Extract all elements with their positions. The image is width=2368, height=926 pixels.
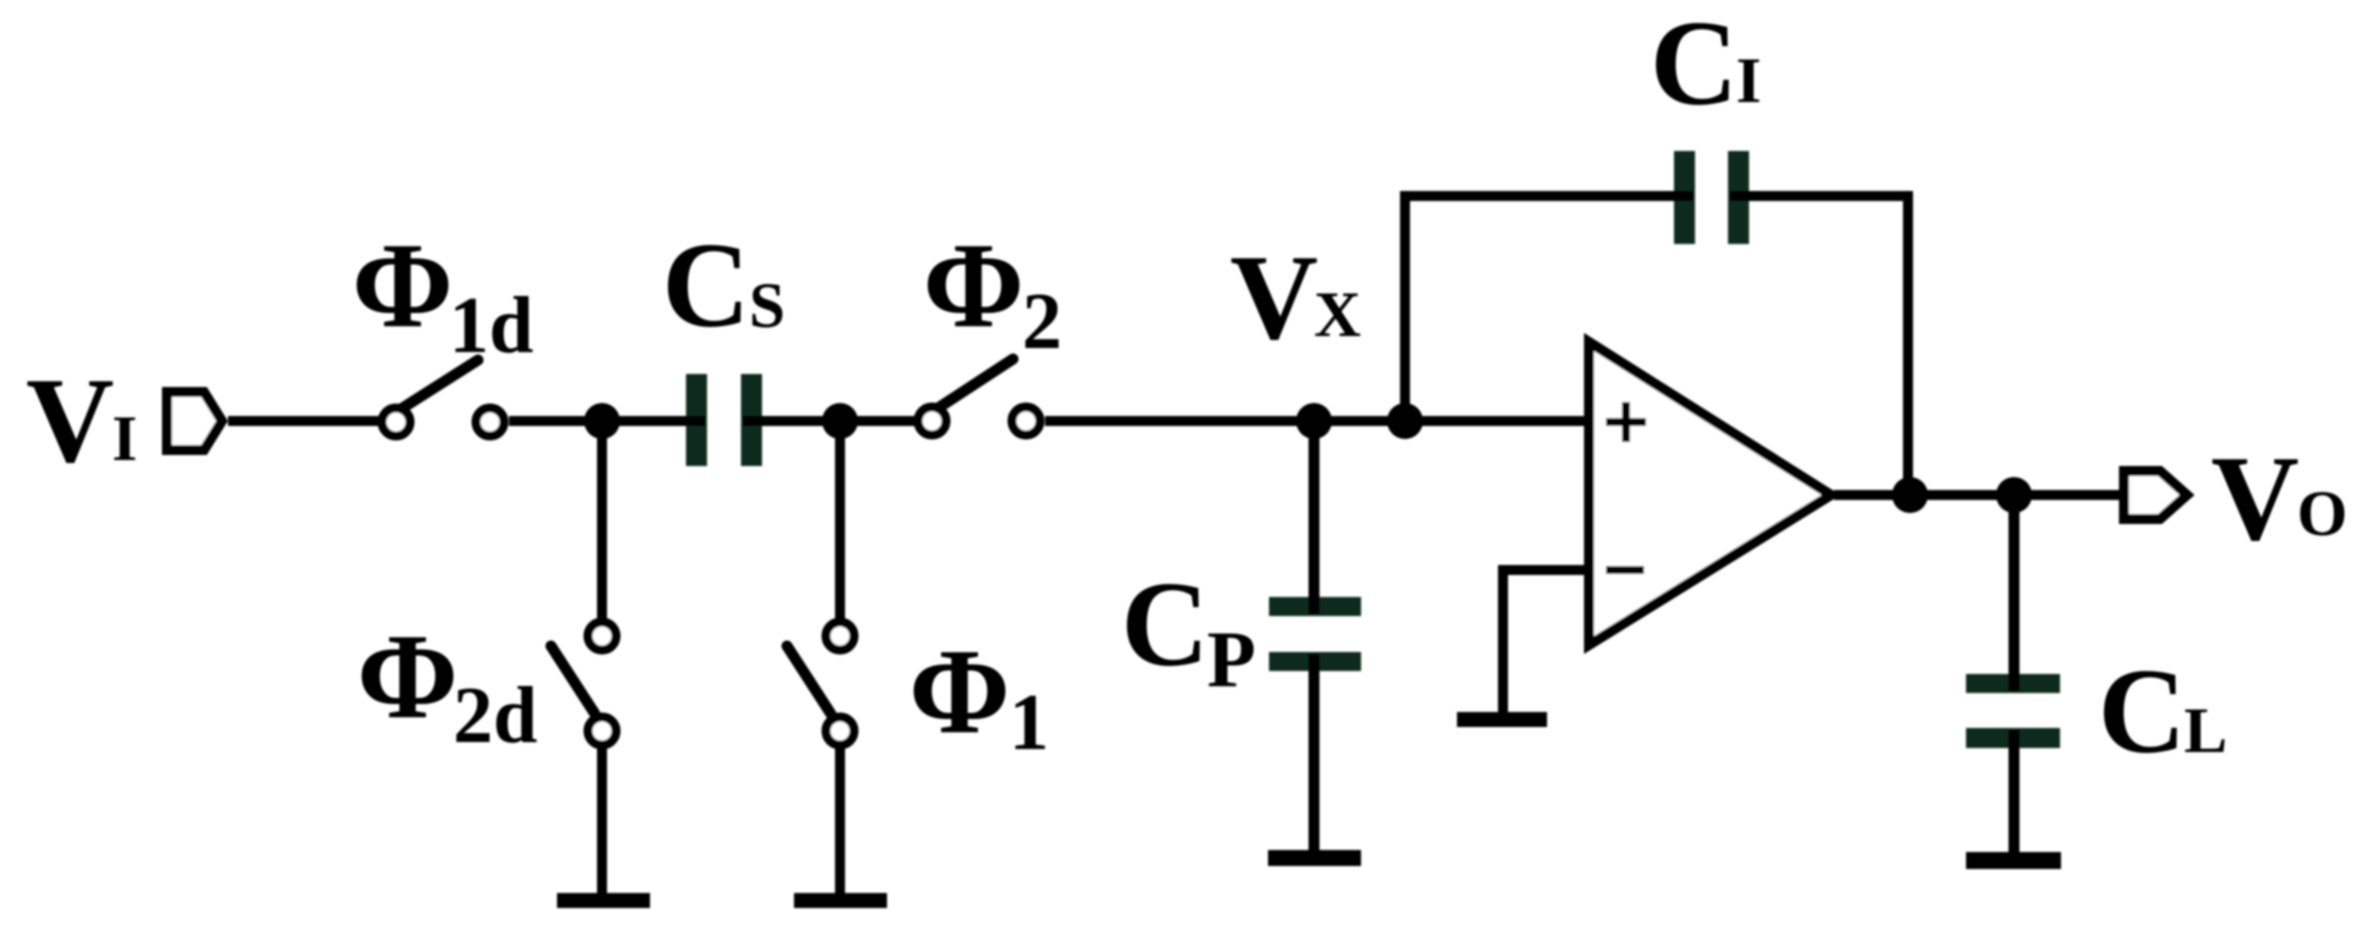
node output 1 [1892, 477, 1928, 513]
svg-text:2: 2 [1022, 278, 1062, 366]
capacitor CL [1966, 674, 2060, 748]
svg-text:C: C [2098, 644, 2186, 779]
capacitor CP [1269, 597, 1361, 671]
node A [584, 403, 620, 439]
svg-text:Φ: Φ [909, 624, 1010, 759]
svg-text:V: V [2211, 431, 2299, 566]
wire node A down to switch phi2d [597, 421, 607, 619]
svg-text:Φ: Φ [352, 218, 453, 353]
svg-text:I: I [1736, 45, 1761, 117]
wire CL to ground [2009, 730, 2020, 854]
op-amp U1 [1589, 342, 1831, 645]
svg-text:Φ: Φ [357, 609, 458, 744]
svg-text:V: V [26, 353, 114, 488]
label CI [1650, 0, 1761, 131]
svg-text:C: C [1650, 0, 1738, 131]
wire phi1 to ground [835, 747, 845, 895]
switch PHI2 [918, 359, 1040, 435]
ground (CP) [1268, 850, 1361, 866]
svg-text:C: C [1121, 557, 1209, 692]
svg-text:C: C [662, 218, 750, 353]
wire CS to node B [743, 416, 919, 426]
wire op-amp minus input to ground [1503, 570, 1589, 714]
svg-text:O: O [2297, 478, 2348, 550]
svg-text:V: V [1230, 230, 1318, 365]
label CS [662, 218, 785, 353]
wire op-amp output to port VO [1834, 490, 2121, 500]
feedback wire up from VX [1405, 196, 1693, 426]
label PHI1 [909, 624, 1049, 767]
node VX1 [1296, 403, 1332, 439]
wire phi2 to op-amp plus input [1045, 416, 1589, 426]
op-amp plus sign [1606, 402, 1646, 442]
label VX [1230, 230, 1361, 365]
wire CP to ground [1309, 654, 1320, 852]
label PHI2d [357, 609, 538, 760]
switch PHI1d [382, 360, 504, 436]
ground (op-amp minus) [1457, 712, 1547, 727]
label VI [26, 353, 137, 488]
port VO [2124, 471, 2187, 519]
feedback wire from CI down to output [1730, 196, 1908, 495]
wire VI to switch phi1d [228, 416, 383, 426]
ground (phi1) [794, 893, 887, 908]
svg-text:L: L [2184, 695, 2227, 767]
label CP [1121, 557, 1256, 704]
svg-text:S: S [749, 270, 785, 342]
switch PHI1 [787, 622, 854, 745]
svg-text:1: 1 [1009, 679, 1049, 767]
node VX2 [1387, 403, 1423, 439]
label PHI1d [352, 218, 534, 370]
svg-text:P: P [1207, 616, 1256, 704]
node output 2 [1996, 477, 2032, 513]
port VI [167, 392, 222, 450]
switch PHI2d [551, 622, 616, 745]
label VO [2211, 431, 2348, 566]
svg-text:I: I [112, 403, 137, 475]
wire node B down to switch phi1 [835, 421, 845, 619]
wire VX down to CP [1309, 421, 1320, 614]
ground (CL) [1966, 852, 2061, 869]
wire phi2d to ground [597, 747, 607, 895]
capacitor CS [686, 374, 762, 466]
svg-text:1d: 1d [449, 282, 534, 370]
wire switch to node A and on to CS [509, 416, 705, 426]
capacitor CI [1674, 151, 1749, 244]
op-amp minus sign [1606, 566, 1644, 574]
node B [822, 403, 858, 439]
label PHI2 [923, 218, 1062, 366]
svg-text:2d: 2d [453, 672, 538, 760]
label CL [2098, 644, 2227, 779]
ground (phi2d) [557, 893, 650, 908]
wire output node down to CL [2009, 495, 2020, 691]
svg-text:Φ: Φ [923, 218, 1024, 353]
svg-text:X: X [1314, 279, 1361, 351]
